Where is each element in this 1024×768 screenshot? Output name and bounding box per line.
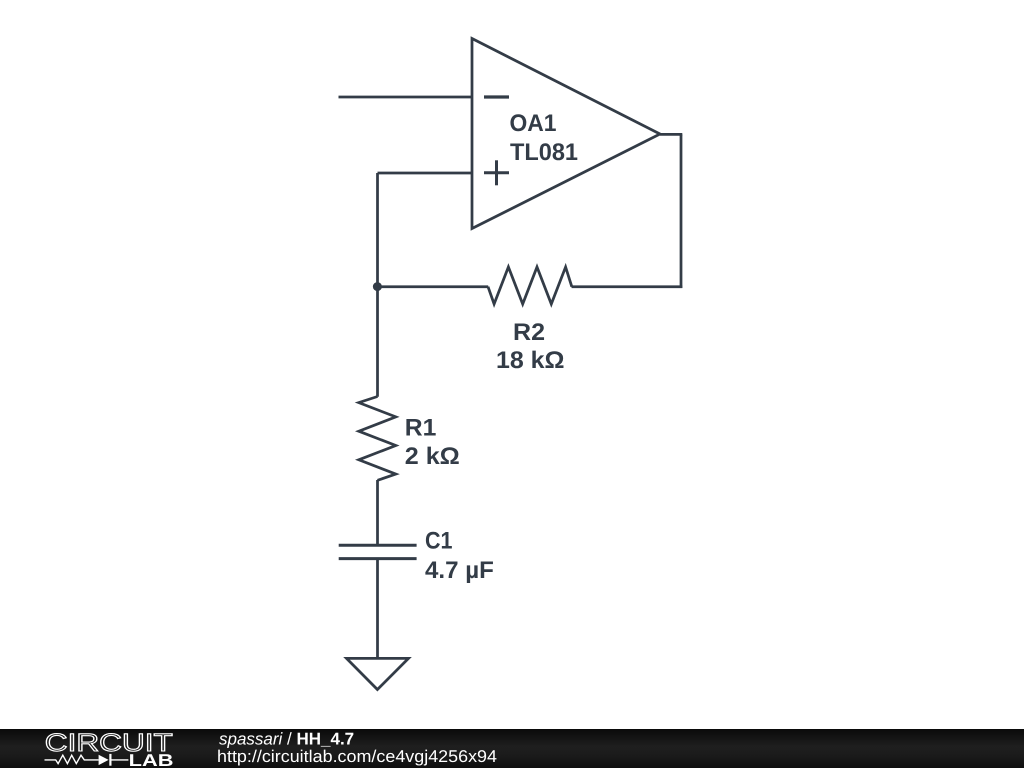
pin - (inverting input marker)	[484, 95, 509, 98]
wire (non-inverting input lead)	[378, 172, 473, 175]
svg-text:2 kΩ: 2 kΩ	[405, 443, 460, 470]
svg-text:R2: R2	[513, 319, 545, 346]
wire (feedback right vertical)	[680, 134, 683, 288]
wire (node A to R2 left lead)	[378, 285, 489, 288]
svg-text:spassari / HH_4.7: spassari / HH_4.7	[219, 730, 354, 749]
CircuitLab logo wordmark CIRCUIT	[45, 729, 173, 757]
wire (node A down to R1 top)	[376, 287, 379, 397]
svg-text:OA1: OA1	[510, 110, 557, 137]
wire (output tip to corner)	[660, 133, 682, 136]
svg-text:C1: C1	[425, 528, 453, 555]
wire (inverting input lead)	[339, 96, 473, 99]
wire (R2 right lead)	[572, 285, 683, 288]
node A (junction dot)	[373, 282, 382, 291]
pin + (non-inverting input marker)	[484, 171, 509, 174]
capacitor C1	[339, 528, 494, 585]
svg-text:TL081: TL081	[510, 139, 578, 166]
op-amp OA1 TL081	[472, 39, 660, 229]
svg-text:18 kΩ: 18 kΩ	[496, 347, 565, 374]
svg-text:LAB: LAB	[129, 751, 174, 768]
footer bar	[0, 729, 1024, 768]
wire (vertical from + input down to node A)	[376, 173, 379, 288]
ground	[347, 658, 409, 689]
svg-text:http://circuitlab.com/ce4vgj42: http://circuitlab.com/ce4vgj4256x94	[217, 747, 497, 766]
footer title: spassari / HH_4.7	[219, 730, 354, 749]
CircuitLab logo resistor-diode symbol	[45, 754, 129, 766]
footer url	[217, 747, 497, 766]
svg-text:R1: R1	[405, 414, 437, 441]
wire (R1 bottom to C1 top plate)	[376, 480, 379, 545]
resistor R1	[359, 397, 460, 481]
resistor R2	[488, 267, 572, 374]
wire (C1 bottom plate to ground)	[376, 559, 379, 659]
CircuitLab logo wordmark LAB	[129, 751, 174, 768]
svg-text:4.7 µF: 4.7 µF	[425, 557, 494, 584]
